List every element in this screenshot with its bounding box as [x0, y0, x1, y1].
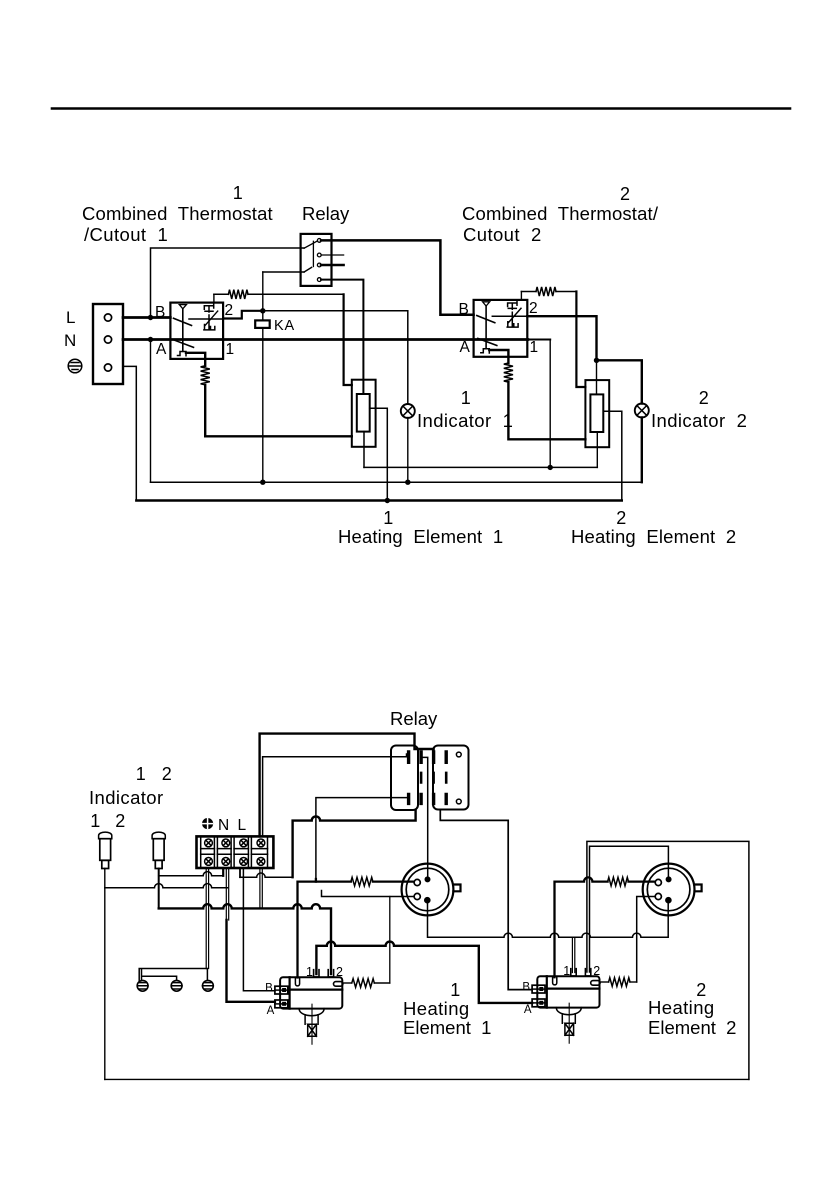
heating element 2 hole: [553, 977, 557, 985]
T2 cutout series resistor: [504, 363, 513, 382]
T1 contact line to terminal 2: [189, 318, 223, 320]
heating element 2 group (wiring): [532, 969, 600, 1043]
heating element 2 body: [585, 380, 609, 447]
svg-text:2: 2: [620, 184, 630, 204]
relay stub contact 3: [321, 264, 344, 267]
relay K1 box: [301, 234, 332, 286]
wire T1 terminal2 step: [223, 311, 263, 319]
wire HE2 pin2 to disc2 top: [590, 846, 669, 972]
svg-text:KA: KA: [274, 318, 295, 334]
terminal screws row1: [205, 839, 265, 847]
T2 cutout foot: [481, 349, 490, 353]
svg-text:Cutout 2: Cutout 2: [463, 224, 542, 245]
heating element 1 pin 2: [328, 970, 333, 977]
heating element 1 group (wiring): [275, 970, 343, 1044]
disc limiter 1: [402, 864, 461, 916]
svg-text:1: 1: [563, 964, 570, 978]
svg-text:2: 2: [616, 508, 626, 528]
wire relay pin 14 to terminal L: [293, 810, 416, 877]
svg-text:/Cutout 1: /Cutout 1: [84, 224, 168, 245]
earth symbol at block: [68, 359, 82, 373]
wire resistor HE1 riser: [389, 897, 391, 984]
relay contact 2: [317, 253, 321, 257]
terminal PE contact: [104, 364, 111, 371]
svg-text:2: 2: [593, 964, 600, 978]
T2 cutout sensor triangle: [483, 302, 490, 306]
T1 lever B: [174, 318, 192, 325]
wire HE2 right stub to bottom bus: [603, 411, 622, 500]
wire disc1 bottom to disc2 bottom and HE2 pin1: [428, 903, 669, 938]
wire HE1 slot to resistor: [343, 982, 352, 984]
disc limiter 2: [643, 864, 702, 916]
wire KA coil vertical: [262, 272, 264, 482]
svg-text:1: 1: [306, 965, 313, 979]
heating element 2 internal lines: [547, 976, 600, 1007]
node KA neutral junction: [260, 480, 265, 485]
svg-text:Heating Element 2: Heating Element 2: [571, 526, 736, 547]
svg-text:L: L: [66, 308, 75, 327]
heating element 1 shaft axis: [311, 1004, 313, 1044]
terminal block dividers: [201, 836, 268, 868]
wire PE stub: [123, 366, 136, 500]
T2 lever B: [477, 316, 495, 323]
svg-text:Element 2: Element 2: [648, 1017, 736, 1038]
heating element 2 shaft: [562, 1014, 575, 1036]
heating element 1 flange dome: [299, 1009, 324, 1016]
heating element 1 body (wiring): [280, 977, 342, 1008]
indicator lamp 2: [635, 404, 649, 418]
earth screw 3: [203, 980, 214, 991]
wire resistor right to heating element2 flange: [556, 291, 576, 293]
wire relay contact4 to heating element1: [321, 280, 363, 394]
T1 cutout sensor triangle: [179, 305, 186, 309]
wire T1 cutout to HE1 flange: [205, 385, 352, 436]
indicator lamp 1 (wiring): [99, 832, 112, 868]
T1 thermostat contact stem: [204, 306, 215, 330]
svg-text:1: 1: [461, 388, 471, 408]
wire indicator2 to neutral bus: [641, 418, 643, 483]
page top rule: [52, 107, 790, 110]
wire N down to neutral bus: [150, 340, 152, 483]
earth symbol above block: [203, 819, 213, 829]
wire earth distribution: [139, 969, 207, 981]
relay contact 1: [317, 239, 321, 243]
wire bottom return bus: [136, 499, 622, 501]
wire T2 terminal1 down: [528, 339, 550, 341]
wire resistor to riser: [374, 982, 390, 984]
indicator lamp 2 (wiring): [152, 832, 165, 868]
relay pins row3: [409, 794, 447, 803]
wire HE1 element bottom: [363, 432, 365, 468]
heating element 2 element: [590, 394, 603, 432]
svg-text:2: 2: [115, 811, 125, 831]
T1 cutout series resistor: [201, 366, 210, 385]
terminal block X1 (L N PE): [93, 304, 123, 384]
wire relay contact1 to thermostat2 B: [321, 240, 474, 314]
heating element 1 shaft: [305, 1015, 318, 1037]
wire HE2 element bottom: [596, 432, 598, 467]
node T2 terminal1 junction: [548, 465, 553, 470]
node N junction: [148, 337, 153, 342]
heating element 2 shaft axis: [568, 1003, 570, 1043]
T2 cutout bottom wire: [489, 350, 508, 363]
resistor feed disc1: [351, 877, 373, 886]
svg-text:2: 2: [162, 764, 172, 784]
heating element 2 flange dome: [556, 1008, 581, 1015]
relay pins row2: [421, 773, 446, 783]
thermostat T1 box: [170, 303, 223, 359]
resistor above T1: [228, 290, 248, 299]
svg-text:1: 1: [90, 811, 100, 831]
wire terminal L2 to relay pin A1: [263, 754, 407, 836]
svg-text:A: A: [460, 339, 471, 356]
svg-text:A: A: [524, 1004, 532, 1016]
relay socket body: [391, 746, 418, 811]
node T2 output junction: [594, 358, 599, 363]
wire L to thermostat1 B: [123, 316, 170, 319]
wire element link bus: [364, 466, 597, 468]
svg-text:B: B: [522, 982, 530, 994]
wire HE1 right stub to bottom bus: [370, 408, 388, 500]
wire terminal N stub: [222, 868, 224, 876]
wire neutral bus: [151, 481, 642, 483]
heating element 1 tab A: [275, 1000, 288, 1008]
wire terminal L to relay feed: [240, 873, 293, 877]
wire lamp2 to terminal N: [159, 872, 224, 876]
T1 thermostat lever: [205, 311, 218, 326]
wire outer loop bottom: [105, 1078, 749, 1080]
svg-text:1: 1: [233, 183, 243, 203]
svg-text:B: B: [265, 983, 273, 995]
svg-text:Indicator: Indicator: [89, 787, 164, 808]
svg-text:1: 1: [530, 339, 539, 356]
relay mounting hole bottom: [456, 799, 461, 804]
svg-text:2: 2: [336, 965, 343, 979]
heating element 1 slot: [334, 982, 343, 987]
relay body: [433, 746, 469, 810]
wire lamp1 down outer loop: [104, 869, 106, 1080]
T2 contact line to terminal 2: [492, 315, 527, 317]
svg-text:2: 2: [225, 302, 234, 319]
thermostat T2 box: [474, 300, 528, 357]
wire relay pin right to HE2 B: [440, 810, 532, 990]
terminal N contact: [104, 336, 111, 343]
T2 lever A: [478, 338, 497, 345]
relay lever 2: [304, 267, 312, 272]
svg-text:Heating Element 1: Heating Element 1: [338, 526, 503, 547]
T2 terminal2 top wire into box: [516, 300, 518, 305]
wire HE1 pin1 to HE2 A: [316, 942, 532, 1003]
svg-text:1: 1: [450, 980, 460, 1000]
svg-text:Heating: Heating: [648, 997, 715, 1018]
T2 thermostat contact stem: [507, 303, 518, 327]
svg-text:Heating: Heating: [403, 998, 470, 1019]
heating element 1 element: [357, 394, 370, 432]
resistor HE1: [352, 979, 375, 988]
wire T1 terminal2 to indicator1: [263, 311, 408, 404]
wire HE2 pin1 riser: [572, 937, 574, 972]
svg-text:2: 2: [529, 300, 538, 317]
heating element 2 slot: [591, 981, 600, 986]
relay mounting hole top: [456, 752, 461, 757]
node L junction: [148, 315, 153, 320]
svg-text:N: N: [218, 817, 229, 834]
wire lamp2 down: [158, 869, 160, 909]
terminal block (wiring): [197, 836, 274, 868]
resistor above T2: [536, 287, 556, 296]
relay stub contact 2: [321, 254, 344, 256]
svg-text:1: 1: [383, 508, 393, 528]
svg-text:1: 1: [226, 341, 235, 358]
relay contact 4: [317, 278, 321, 282]
heating element 2 body (wiring): [537, 976, 599, 1007]
svg-text:Combined Thermostat/: Combined Thermostat/: [462, 203, 659, 224]
wire resistor right to heating element1 flange: [248, 293, 344, 295]
wire resistor left to T2: [521, 291, 536, 293]
wire resistor left to T1: [214, 293, 229, 295]
resistor feed disc2: [608, 877, 629, 886]
wire relay pin 11 to resistor feed: [316, 798, 407, 879]
T2 cutout rod: [485, 306, 487, 349]
node resistor feed tee: [315, 879, 317, 882]
heating element 1 tab B: [275, 986, 288, 994]
indicator lamp 1: [401, 404, 415, 418]
wire N line to thermostat2 A: [123, 338, 528, 341]
svg-text:1: 1: [136, 764, 146, 784]
heating element 1 body: [352, 380, 376, 447]
node HE1 return junction: [385, 498, 390, 503]
heating element 2 tab B: [532, 985, 545, 993]
bus lamp2 to HE1 pin2: [159, 904, 331, 974]
svg-text:2: 2: [699, 388, 709, 408]
wire junction to HE2 element top: [596, 360, 598, 394]
wire terminal col1 earth pair: [206, 868, 208, 969]
svg-text:B: B: [155, 304, 165, 321]
wire terminal col4 pair down: [260, 868, 262, 907]
wire junction to indicator2: [597, 360, 642, 403]
terminal screws row2: [205, 858, 265, 866]
node indicator1 neutral junction: [405, 480, 410, 485]
T1 cutout bottom wire: [186, 353, 205, 366]
svg-text:Element 1: Element 1: [403, 1017, 491, 1038]
heating element 1 pin 1: [314, 970, 319, 977]
relay link bar: [312, 241, 314, 266]
wire HE1 hole riser to resistor to disc1: [298, 882, 414, 978]
terminal block cell bars: [201, 849, 268, 855]
wire lamp1 branch: [105, 884, 228, 888]
wire L up to relay: [151, 248, 305, 318]
wire relay pin middle to disc1: [421, 757, 428, 876]
wire HE2 slot to resistor: [600, 981, 609, 983]
relay lever 1: [304, 241, 317, 248]
svg-text:B: B: [459, 301, 469, 318]
wire T2 terminal2 to junction: [527, 316, 596, 360]
terminal L contact: [104, 314, 111, 321]
wire T2 cutout to HE2 flange: [508, 382, 585, 439]
node KA top junction: [260, 308, 265, 313]
wire indicator1 to neutral bus: [407, 418, 409, 483]
svg-text:Relay: Relay: [302, 203, 350, 224]
svg-text:A: A: [156, 341, 167, 358]
earth screw 2: [171, 980, 182, 991]
relay pins row1: [409, 752, 447, 762]
heating element 2 tab A: [532, 999, 545, 1007]
svg-text:L: L: [238, 817, 247, 834]
svg-text:Indicator 1: Indicator 1: [417, 410, 513, 431]
wire relay lever2 to KA coil: [263, 271, 304, 273]
wire terminal L stub: [239, 868, 241, 877]
svg-text:Relay: Relay: [390, 708, 438, 729]
wire terminal col3 to HE1 B: [243, 868, 275, 991]
svg-text:Indicator 2: Indicator 2: [651, 410, 747, 431]
wire terminal L2 to relay top: [260, 734, 434, 837]
heating element 1 hole: [295, 978, 299, 986]
relay coil KA: [255, 320, 270, 328]
wire disc2 lower pin to resistor HE2: [637, 897, 655, 983]
earth screw 1: [137, 980, 148, 991]
wire HE2 hole riser to resistor to disc2: [555, 877, 655, 977]
T1 cutout foot: [178, 352, 187, 356]
T1 terminal2 top wire into box: [213, 303, 215, 308]
heating element 2 pin 2: [585, 969, 590, 976]
relay contact 3: [317, 263, 321, 267]
svg-text:N: N: [64, 331, 76, 350]
svg-text:Combined Thermostat: Combined Thermostat: [82, 203, 273, 224]
T1 lever A: [175, 340, 194, 347]
T1 cutout rod: [182, 309, 184, 352]
svg-text:A: A: [267, 1005, 275, 1017]
wire disc1 lower pin hook: [322, 891, 414, 897]
heating element 1 internal lines: [290, 977, 343, 1008]
wire terminal col2 pair to HE1 A: [226, 868, 228, 920]
heating element 2 pin 1: [571, 969, 576, 976]
wire HE2 pin2 to outer loop: [587, 841, 749, 1079]
wire resistor to riser 2: [630, 981, 637, 983]
resistor HE2: [609, 978, 630, 987]
T2 thermostat lever: [508, 308, 521, 323]
